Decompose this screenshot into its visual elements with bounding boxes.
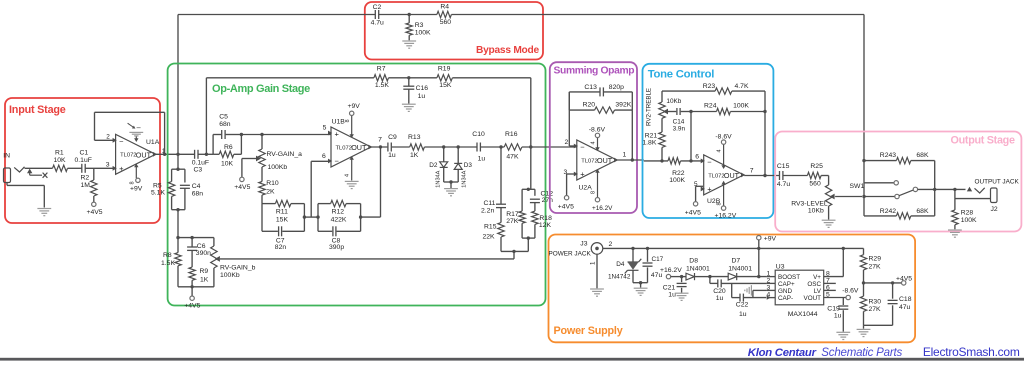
svg-text:1K: 1K <box>200 276 209 283</box>
jack ground wire <box>6 183 8 186</box>
svg-text:68n: 68n <box>219 121 231 128</box>
svg-text:+16.2V: +16.2V <box>592 205 613 212</box>
svg-text:7: 7 <box>378 137 382 144</box>
svg-text:422K: 422K <box>331 217 347 224</box>
U2B out wire <box>744 175 779 177</box>
svg-text:Input Stage: Input Stage <box>9 104 66 116</box>
C5/R6 parallel network <box>212 135 214 155</box>
svg-text:−: − <box>707 157 712 166</box>
svg-text:SW1: SW1 <box>850 183 865 190</box>
svg-text:R1: R1 <box>55 150 64 157</box>
resistor R5 5.1K <box>168 182 174 197</box>
svg-text:+9V: +9V <box>348 103 361 110</box>
svg-text:47K: 47K <box>506 154 519 161</box>
+4V5 wire <box>864 282 902 284</box>
svg-text:82n: 82n <box>275 244 287 251</box>
svg-text:CAP-: CAP- <box>778 295 793 302</box>
wire between loops <box>304 216 318 218</box>
R5/C4 parallel network <box>177 154 179 169</box>
svg-text:68n: 68n <box>192 190 204 197</box>
svg-text:R22: R22 <box>672 170 685 177</box>
svg-text:8: 8 <box>345 119 351 122</box>
U2B pin5 wire to +4V5 <box>696 185 703 187</box>
svg-text:C13: C13 <box>584 84 597 91</box>
svg-text:-8.6V: -8.6V <box>715 134 732 141</box>
svg-text:Schematic Parts: Schematic Parts <box>821 347 902 359</box>
svg-text:2: 2 <box>106 134 110 141</box>
svg-text:R28: R28 <box>961 209 974 216</box>
svg-text:R30: R30 <box>869 298 882 305</box>
GND pin wire + left ground <box>752 290 754 297</box>
wire R19 down to signal line <box>452 77 530 79</box>
capacitor C7 82n <box>278 226 280 236</box>
svg-text:+: + <box>580 170 585 179</box>
ground (RV3) <box>828 206 830 219</box>
svg-text:47u: 47u <box>899 304 911 311</box>
wire bypass down to SW1 <box>863 15 865 216</box>
svg-text:100K: 100K <box>415 30 431 37</box>
svg-text:ElectroSmash.com: ElectroSmash.com <box>923 345 1020 359</box>
svg-text:+: + <box>335 130 340 139</box>
potentiometer RV-GAIN_b 100Kb <box>213 238 215 246</box>
svg-text:1N34A: 1N34A <box>435 170 441 187</box>
svg-text:+4V5: +4V5 <box>184 303 200 310</box>
svg-text:D7: D7 <box>732 258 741 265</box>
U2A V+ stem to +16.2V <box>597 170 599 198</box>
svg-text:15K: 15K <box>439 82 452 89</box>
svg-text:OSC: OSC <box>807 281 821 288</box>
svg-text:Bypass Mode: Bypass Mode <box>476 45 540 56</box>
svg-text:1u: 1u <box>834 312 842 319</box>
wire D8 to D7 <box>710 276 728 278</box>
capacitor C11 2.2n <box>500 147 502 204</box>
op-amp U2B <box>704 155 744 195</box>
svg-text:27K: 27K <box>869 306 882 313</box>
wire to C3 <box>178 153 195 155</box>
svg-text:3.9n: 3.9n <box>673 125 686 132</box>
svg-text:R12: R12 <box>332 208 345 215</box>
svg-text:GND: GND <box>778 288 792 295</box>
wire R16 to summing opamp <box>522 146 577 148</box>
wiper wire to right rail <box>220 258 514 260</box>
svg-text:1: 1 <box>623 152 627 159</box>
svg-text:J2: J2 <box>991 206 998 213</box>
resistor R12 422K <box>331 200 347 206</box>
svg-text:-8.6V: -8.6V <box>589 126 606 133</box>
svg-text:2K: 2K <box>266 189 275 196</box>
svg-text:27K: 27K <box>506 218 519 225</box>
wire R3 to ground <box>408 35 410 40</box>
U2B V- stem to -8.6V <box>723 144 725 168</box>
svg-text:6: 6 <box>695 154 699 161</box>
U2A feedback network C13 R20 <box>568 92 570 146</box>
svg-text:R2: R2 <box>81 175 90 182</box>
U2A pin2 wire <box>569 145 576 147</box>
svg-text:0.1uF: 0.1uF <box>192 160 209 167</box>
op-amp U2A <box>577 140 617 180</box>
pin8 wire to +9V rail <box>824 276 844 278</box>
section box: Output Stage <box>775 132 1021 232</box>
svg-text:R25: R25 <box>810 163 823 170</box>
svg-text:LV: LV <box>814 288 822 295</box>
resistor R22 100K <box>668 158 681 164</box>
capacitor C3 0.1uF <box>194 150 196 159</box>
svg-text:C15: C15 <box>777 163 790 170</box>
wire R7 to R19 <box>389 77 437 79</box>
wire U1B pin6 down <box>310 161 312 217</box>
svg-text:Summing Opamp: Summing Opamp <box>554 66 635 77</box>
svg-text:POWER JACK: POWER JACK <box>549 250 592 257</box>
svg-text:U1B: U1B <box>332 119 346 126</box>
junction C16 <box>407 76 410 79</box>
svg-text:C17: C17 <box>652 256 664 263</box>
svg-text:3: 3 <box>106 162 110 169</box>
svg-text:392K: 392K <box>615 102 631 109</box>
wire to output jack <box>935 188 966 190</box>
ground (input jack) <box>37 208 51 210</box>
svg-text:+16.2V: +16.2V <box>715 213 737 220</box>
svg-text:−: − <box>119 137 124 146</box>
svg-text:R11: R11 <box>276 208 288 215</box>
svg-text:RV3-LEVEL: RV3-LEVEL <box>791 200 828 207</box>
svg-text:IN: IN <box>3 153 10 160</box>
svg-text:R3: R3 <box>415 22 424 29</box>
svg-text:R20: R20 <box>583 102 596 109</box>
svg-text:C2: C2 <box>373 4 382 11</box>
resistor R18 12K <box>532 211 538 224</box>
svg-text:1u: 1u <box>418 93 426 100</box>
+4V5 terminal <box>93 196 95 202</box>
svg-text:1: 1 <box>590 261 597 265</box>
svg-text:D4: D4 <box>616 261 625 268</box>
svg-text:R19: R19 <box>438 66 451 73</box>
svg-text:V+: V+ <box>813 274 821 281</box>
resistor R1 10K <box>53 165 68 171</box>
U1B V- stem to ground <box>351 157 353 181</box>
svg-text:U2A: U2A <box>579 185 593 192</box>
section box: Summing Opamp <box>550 62 637 213</box>
U1A V- ground symbol <box>135 137 137 141</box>
diodes D2/D3 1N34A clipping pair <box>457 145 460 148</box>
ground (U1B) <box>345 180 359 182</box>
svg-text:C9: C9 <box>388 134 397 141</box>
U1A feedback wire OUT to pin2 <box>156 153 178 155</box>
svg-text:VOUT: VOUT <box>804 295 822 302</box>
capacitor C17 47u <box>647 248 649 261</box>
svg-text:10Kb: 10Kb <box>808 208 824 215</box>
svg-text:0.1uF: 0.1uF <box>75 157 92 164</box>
svg-text:TL072: TL072 <box>708 173 724 179</box>
jack open contact X <box>43 173 48 178</box>
capacitor C2 4.7u <box>374 10 376 19</box>
svg-text:C22: C22 <box>736 301 749 308</box>
svg-text:8: 8 <box>591 191 597 194</box>
svg-text:68K: 68K <box>916 208 929 215</box>
svg-text:CAP+: CAP+ <box>778 281 795 288</box>
svg-text:C16: C16 <box>416 85 429 92</box>
capacitor C1 0.1uF <box>81 164 83 173</box>
junction feedback tap <box>205 153 208 156</box>
svg-text:+4V5: +4V5 <box>234 184 250 191</box>
resistor R15 22K <box>498 223 504 238</box>
svg-text:R5: R5 <box>153 183 162 190</box>
svg-text:R6: R6 <box>224 144 233 151</box>
svg-text:R243: R243 <box>880 152 896 159</box>
resistor R30 27K <box>863 283 865 296</box>
wire R4 to SW1 vertical <box>451 14 864 16</box>
svg-text:+16.2V: +16.2V <box>660 267 682 274</box>
svg-text:4.7u: 4.7u <box>371 20 384 27</box>
section box: Op-Amp Gain Stage <box>168 64 546 306</box>
capacitor C16 1u <box>408 78 410 86</box>
capacitor C18 47u <box>864 324 893 326</box>
svg-text:D2: D2 <box>429 162 438 169</box>
bottom +4V5 rail <box>178 286 214 288</box>
svg-text:+: + <box>119 164 124 173</box>
wire R12 loop to U1B out <box>361 216 381 218</box>
zener diode D4 1N4742 <box>632 248 634 262</box>
U1B V+ stem to +9V <box>351 115 353 137</box>
ground (D2/D3) <box>444 188 458 190</box>
capacitor C22 1u <box>731 283 733 297</box>
svg-text:1u: 1u <box>668 292 676 299</box>
svg-text:1M: 1M <box>81 182 91 189</box>
potentiometer RV3-LEVEL 10Kb <box>828 176 830 185</box>
svg-text:100K: 100K <box>669 177 685 184</box>
svg-text:100Kb: 100Kb <box>220 272 240 279</box>
wire C2 to R4 <box>379 14 437 16</box>
resistor R21 1.8K <box>661 118 663 132</box>
section box: Input Stage <box>5 98 160 223</box>
bottom rail wire <box>501 250 528 252</box>
resistor R4 560 <box>437 11 452 17</box>
wire U1A out node up to bypass line <box>177 15 179 155</box>
wire R13 to diodes node <box>424 146 476 148</box>
resistor R23 4.7K <box>715 88 732 94</box>
capacitor C4 68n <box>180 184 190 186</box>
wire down to C6/R9 row <box>177 210 179 238</box>
pin6 LV stub <box>824 289 836 291</box>
wire C3 to C5/R6 network <box>198 153 213 155</box>
svg-text:Klon Centaur: Klon Centaur <box>748 347 817 359</box>
R12/C8 parallel network <box>317 204 319 232</box>
capacitor C5 68n <box>221 130 223 139</box>
pin4 arrow <box>767 295 771 299</box>
svg-text:OUT: OUT <box>724 171 740 180</box>
svg-text:+4V5: +4V5 <box>87 209 103 216</box>
svg-text:R15: R15 <box>484 224 497 231</box>
svg-text:1N4001: 1N4001 <box>728 266 752 273</box>
svg-text:R242: R242 <box>880 208 896 215</box>
capacitor C15 4.7u <box>779 171 781 180</box>
capacitor C12 27n <box>530 198 540 200</box>
svg-text:12K: 12K <box>539 222 552 229</box>
svg-text:C21: C21 <box>663 284 676 291</box>
resistor R242 68K <box>864 215 896 217</box>
svg-text:OUT: OUT <box>136 151 152 160</box>
SW1 common contact <box>864 196 895 198</box>
ground (R30) <box>863 325 865 328</box>
right feedback vertical <box>764 91 766 175</box>
svg-text:4: 4 <box>345 174 351 177</box>
input wire from summing opamp <box>644 160 668 162</box>
wire C14 node to R24 <box>691 111 717 113</box>
diode D2 <box>440 162 448 168</box>
svg-text:R21: R21 <box>645 132 658 139</box>
svg-text:100K: 100K <box>961 217 977 224</box>
ground (C16) <box>402 103 416 105</box>
svg-text:560: 560 <box>440 19 452 26</box>
resistor R243 68K <box>864 160 896 162</box>
svg-text:OUT: OUT <box>351 143 367 152</box>
capacitor C19 1u <box>842 298 844 306</box>
U2A out wire <box>617 159 644 161</box>
svg-text:C5: C5 <box>219 114 228 121</box>
footer bar <box>0 358 1024 361</box>
svg-text:1N4001: 1N4001 <box>686 266 710 273</box>
section box: Tone Control <box>643 64 774 218</box>
resistor R13 1K <box>410 144 425 150</box>
capacitor C21 1u <box>680 275 683 278</box>
potentiometer RV2 10Kb <box>659 102 665 118</box>
wire C1 to U1A pin3 <box>86 167 115 169</box>
svg-text:4.7u: 4.7u <box>777 181 790 188</box>
svg-text:68K: 68K <box>916 152 929 159</box>
svg-text:1u: 1u <box>478 156 486 163</box>
diode D3 <box>454 163 462 169</box>
svg-text:R23: R23 <box>703 83 716 90</box>
svg-text:+9V: +9V <box>130 186 143 193</box>
junction node R3 <box>408 13 411 16</box>
svg-text:560: 560 <box>809 180 821 187</box>
diode D7 1N4001 <box>728 273 737 280</box>
capacitor C9 1u <box>387 143 389 152</box>
svg-text:D3: D3 <box>464 162 473 169</box>
svg-text:5.1K: 5.1K <box>151 190 165 197</box>
resistor R9 1K <box>189 267 195 280</box>
svg-text:R18: R18 <box>539 215 552 222</box>
svg-text:R10: R10 <box>266 180 279 187</box>
ground (R3) <box>402 40 416 42</box>
svg-text:1u: 1u <box>716 295 724 302</box>
U2B V+ stem to +16.2V <box>723 182 725 206</box>
SW1 top contact <box>864 182 894 184</box>
svg-text:MAX1044: MAX1044 <box>788 311 818 318</box>
resistor R17 27K <box>519 211 525 223</box>
svg-text:+9V: +9V <box>764 235 777 242</box>
svg-text:100Kb: 100Kb <box>268 164 288 171</box>
svg-text:4: 4 <box>591 141 597 144</box>
jack switch arrow <box>27 169 32 174</box>
op-amp U1B <box>331 127 371 167</box>
resistor R20 392K <box>595 107 615 113</box>
svg-text:−: − <box>580 143 585 152</box>
svg-text:C11: C11 <box>484 200 496 207</box>
+9V terminal <box>757 236 761 240</box>
svg-text:D8: D8 <box>689 258 698 265</box>
svg-text:R29: R29 <box>869 256 882 263</box>
wire C14 node down to pin6 <box>690 112 692 161</box>
svg-text:+4V5: +4V5 <box>896 275 912 282</box>
resistor R3 100K <box>408 15 410 23</box>
svg-text:15K: 15K <box>276 217 289 224</box>
resistor R7 1.5K <box>374 75 389 81</box>
capacitor C13 820p <box>599 87 601 96</box>
capacitor C14 3.9n <box>668 111 676 113</box>
resistor R6 10K <box>219 151 234 157</box>
svg-text:+: + <box>707 184 712 193</box>
SW1 blade <box>899 190 913 196</box>
svg-text:8: 8 <box>130 181 136 184</box>
svg-text:OUT: OUT <box>597 156 613 165</box>
wire R1 to C1 <box>68 167 82 169</box>
svg-text:820p: 820p <box>609 84 624 91</box>
svg-text:1u: 1u <box>388 152 396 159</box>
capacitor C8 390p <box>332 226 334 236</box>
svg-text:2.2n: 2.2n <box>481 208 494 215</box>
svg-text:-8.6V: -8.6V <box>842 288 859 295</box>
U1A V+ stem to +9V <box>135 165 137 179</box>
svg-text:R4: R4 <box>440 3 449 10</box>
svg-text:C4: C4 <box>192 183 201 190</box>
wire feedback tap up to R7 line <box>205 78 207 155</box>
svg-text:C3: C3 <box>194 167 203 174</box>
capacitor C6 390n <box>191 238 193 247</box>
resistor R29 27K <box>863 248 865 254</box>
resistor R24 100K <box>717 108 731 114</box>
svg-text:RV2-TREBLE: RV2-TREBLE <box>646 88 653 126</box>
svg-text:27K: 27K <box>869 263 882 270</box>
svg-text:6: 6 <box>322 153 326 160</box>
svg-text:U1A: U1A <box>146 139 160 146</box>
svg-text:R7: R7 <box>377 66 386 73</box>
jack ground <box>596 254 598 288</box>
svg-text:390n: 390n <box>196 250 211 257</box>
svg-text:390p: 390p <box>329 244 344 251</box>
+9V rail wire <box>603 247 864 249</box>
svg-text:Op-Amp Gain Stage: Op-Amp Gain Stage <box>212 83 310 95</box>
svg-text:Output Stage: Output Stage <box>951 135 1015 147</box>
ground (C21) <box>675 292 689 294</box>
resistor R28 100K <box>954 199 956 210</box>
svg-text:U3: U3 <box>776 263 785 270</box>
svg-text:2: 2 <box>565 139 569 146</box>
svg-text:R16: R16 <box>505 131 518 138</box>
svg-text:+4V5: +4V5 <box>558 204 574 211</box>
section box: Power Supply <box>549 235 916 343</box>
resistor R8 1.5K <box>177 238 179 253</box>
wire bypass line left segment <box>178 14 375 16</box>
pin7 OSC stub <box>824 282 836 284</box>
svg-text:Tone Control: Tone Control <box>648 69 715 81</box>
ground (C19) <box>836 331 850 333</box>
svg-text:−: − <box>335 157 340 166</box>
svg-text:1.8K: 1.8K <box>642 139 656 146</box>
svg-text:27n: 27n <box>542 197 554 204</box>
wire C5 line to U1B pin5 <box>241 134 331 136</box>
svg-text:1.5K: 1.5K <box>375 82 389 89</box>
svg-text:10Kb: 10Kb <box>666 98 681 105</box>
ground (R28) <box>948 229 962 231</box>
svg-text:RV-GAIN_a: RV-GAIN_a <box>267 151 303 158</box>
svg-text:C1: C1 <box>80 150 89 157</box>
R11/C7 parallel network <box>262 203 275 205</box>
svg-text:Power Supply: Power Supply <box>554 325 623 337</box>
resistor R2 1M <box>93 168 95 180</box>
resistor R16 47K <box>504 144 522 150</box>
pot top wire to R23 <box>661 91 663 102</box>
section box: Bypass Mode <box>365 2 543 60</box>
